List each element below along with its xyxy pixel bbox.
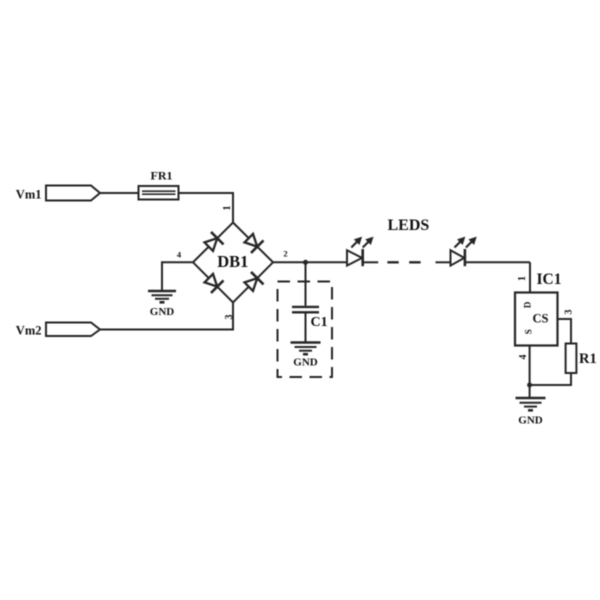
svg-text:R1: R1 — [579, 351, 597, 367]
svg-text:Vm2: Vm2 — [16, 324, 42, 338]
svg-text:IC1: IC1 — [537, 271, 562, 288]
svg-text:DB1: DB1 — [217, 252, 248, 271]
svg-text:S: S — [523, 329, 533, 334]
svg-text:FR1: FR1 — [151, 169, 173, 183]
svg-text:GND: GND — [518, 415, 543, 427]
svg-text:4: 4 — [518, 355, 529, 360]
svg-text:GND: GND — [293, 357, 318, 369]
svg-text:1: 1 — [222, 206, 233, 211]
svg-text:CS: CS — [533, 312, 549, 326]
svg-text:D: D — [523, 301, 533, 308]
svg-text:LEDS: LEDS — [388, 217, 430, 234]
svg-text:3: 3 — [564, 310, 575, 315]
svg-text:C1: C1 — [311, 315, 328, 330]
svg-text:3: 3 — [224, 315, 235, 320]
svg-text:1: 1 — [517, 276, 528, 281]
svg-text:2: 2 — [283, 249, 287, 259]
svg-text:4: 4 — [177, 250, 182, 260]
svg-text:GND: GND — [150, 306, 175, 318]
svg-text:Vm1: Vm1 — [16, 187, 42, 201]
